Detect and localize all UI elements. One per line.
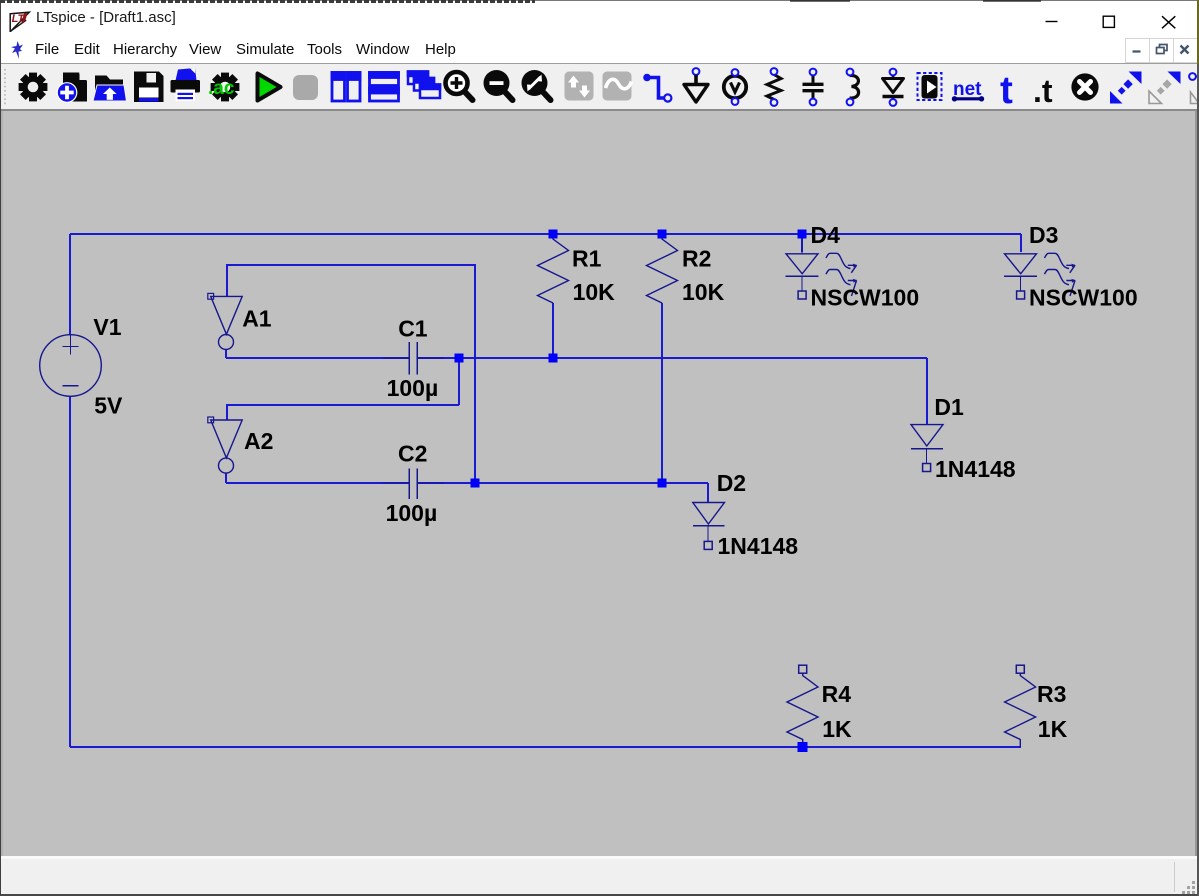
svg-text:R2: R2 <box>682 246 711 272</box>
svg-text:R4: R4 <box>822 681 852 707</box>
svg-text:1K: 1K <box>822 716 852 742</box>
svg-text:1N4148: 1N4148 <box>935 456 1016 482</box>
svg-text:net: net <box>953 79 982 100</box>
svg-text:.t: .t <box>1033 73 1053 109</box>
svg-text:10K: 10K <box>682 279 725 305</box>
svg-text:1N4148: 1N4148 <box>718 533 799 559</box>
svg-text:V1: V1 <box>93 314 121 340</box>
svg-text:R3: R3 <box>1037 681 1066 707</box>
svg-text:.ac: .ac <box>208 78 235 99</box>
svg-text:100µ: 100µ <box>387 375 439 401</box>
svg-text:1K: 1K <box>1038 716 1068 742</box>
svg-text:C2: C2 <box>398 441 427 467</box>
svg-text:D1: D1 <box>934 394 964 420</box>
svg-text:D4: D4 <box>811 222 841 248</box>
svg-text:C1: C1 <box>398 315 428 341</box>
svg-text:t: t <box>1000 69 1013 109</box>
svg-text:A1: A1 <box>242 306 272 332</box>
svg-text:D3: D3 <box>1029 222 1058 248</box>
svg-text:100µ: 100µ <box>386 500 438 526</box>
svg-text:D2: D2 <box>717 470 746 496</box>
svg-text:NSCW100: NSCW100 <box>1029 284 1138 310</box>
svg-text:NSCW100: NSCW100 <box>811 284 920 310</box>
svg-text:10K: 10K <box>573 279 616 305</box>
svg-text:5V: 5V <box>94 393 123 419</box>
svg-text:A2: A2 <box>244 428 273 454</box>
svg-text:R1: R1 <box>572 246 602 272</box>
